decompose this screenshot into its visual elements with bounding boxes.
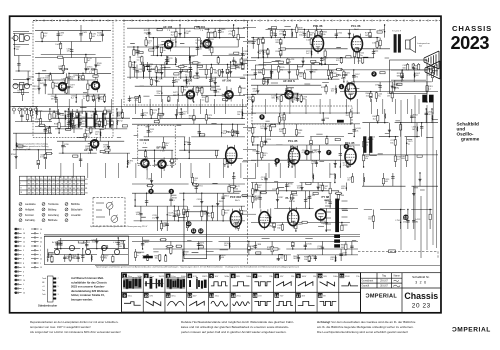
svg-text:68k: 68k (214, 73, 217, 75)
node 11 (191, 228, 196, 233)
antenna sockets (13, 32, 30, 93)
oscillogram cell 8 (274, 274, 279, 279)
svg-text:Antenne Kanalwähler Umschalt: Antenne Kanalwähler Umschaltung (17, 143, 48, 146)
svg-text:gramme: gramme (461, 137, 480, 142)
svg-text:1: 1 (40, 263, 41, 265)
node 1 (339, 84, 344, 89)
frame border (10, 16, 441, 313)
wire convergence (48, 238, 128, 262)
svg-text:10n: 10n (266, 217, 269, 219)
svg-text:3 2 6: 3 2 6 (415, 280, 427, 284)
svg-text:25u: 25u (377, 96, 380, 98)
svg-text:10: 10 (23, 280, 25, 282)
svg-text:Ständerdrucker: Ständerdrucker (38, 304, 57, 308)
svg-text:20 23: 20 23 (412, 303, 431, 310)
svg-text:1n: 1n (128, 163, 130, 165)
transformer audio output transformer (394, 34, 401, 52)
wire frame stage (132, 173, 248, 231)
svg-text:68k: 68k (415, 221, 418, 223)
oscillogram cell 13 (209, 293, 214, 298)
svg-text:1M: 1M (248, 131, 251, 133)
svg-text:1M: 1M (387, 95, 390, 97)
oscillogram strip frame (122, 273, 361, 312)
svg-text:Defekte Hochlastwiderstände si: Defekte Hochlastwiderstände sind möglich… (181, 320, 294, 324)
tube PY88 Ro9 (316, 210, 326, 223)
sound if dashed box (252, 106, 352, 124)
svg-text:25u: 25u (323, 188, 326, 190)
svg-text:50u: 50u (222, 96, 225, 98)
svg-text:3: 3 (170, 190, 172, 194)
oscillogram cell 10 (318, 274, 323, 279)
antenna note (17, 143, 49, 151)
svg-text:1n: 1n (58, 244, 60, 246)
oscillogram cell 15 (253, 293, 258, 298)
wire audio mid (251, 69, 343, 102)
black module box (337, 120, 344, 123)
svg-text:1M: 1M (51, 98, 54, 100)
svg-text:47k: 47k (355, 76, 358, 78)
svg-text:Geprüft: Geprüft (362, 285, 370, 288)
svg-text:Rö 6: Rö 6 (231, 135, 236, 137)
transistor T1 AF239 (56, 80, 67, 94)
oscillogram cell 9 (122, 293, 127, 298)
transistor T6 AF200 (222, 88, 233, 102)
svg-text:15k: 15k (313, 276, 316, 278)
svg-text:12: 12 (199, 229, 203, 233)
mid horizontal bus (11, 106, 248, 108)
svg-text:8: 8 (23, 263, 24, 265)
svg-text:Als Lötgut darf nur Lötzinn mi: Als Lötgut darf nur Lötzinn mit mindeste… (30, 330, 121, 334)
wire audio top (251, 25, 390, 64)
svg-text:6: 6 (276, 159, 278, 163)
svg-text:ƆMPERIAL: ƆMPERIAL (365, 293, 397, 299)
tube PFL200 Ro6 (226, 145, 237, 166)
svg-text:25u: 25u (160, 68, 163, 70)
svg-text:19: 19 (40, 267, 42, 269)
svg-text:16: 16 (23, 267, 25, 269)
svg-text:15k: 15k (216, 91, 219, 93)
svg-text:AF 200: AF 200 (183, 79, 193, 83)
node 8 (344, 144, 349, 149)
wire right feeders (401, 95, 437, 250)
svg-text:5: 5 (261, 115, 263, 119)
svg-text:Ton: Ton (42, 290, 45, 292)
svg-text:Farbsättg.: Farbsättg. (25, 219, 36, 222)
lower horizontal bus (44, 235, 440, 266)
top dashed bus (33, 20, 440, 22)
svg-text:Rö 3: Rö 3 (349, 146, 354, 148)
svg-text:Dr686: Dr686 (44, 128, 50, 130)
svg-text:12: 12 (23, 242, 25, 244)
tube PL36 Ro8 (259, 209, 270, 230)
svg-text:22: 22 (40, 242, 42, 244)
dashed service line (358, 251, 438, 258)
note block (71, 276, 109, 302)
svg-text:Br 300: Br 300 (52, 242, 59, 244)
svg-text:8: 8 (40, 246, 41, 248)
svg-text:Tr 5-Ü 1:9: Tr 5-Ü 1:9 (392, 30, 402, 33)
svg-text:PFL 200: PFL 200 (226, 130, 237, 134)
svg-text:AF 302 S: AF 302 S (283, 79, 295, 83)
svg-text:AF 139: AF 139 (86, 67, 96, 71)
svg-text:50Hz: 50Hz (225, 276, 230, 278)
svg-text:1: 1 (341, 85, 343, 89)
svg-text:68k: 68k (413, 117, 416, 119)
channel voltage table (20, 176, 85, 195)
svg-text:1n: 1n (158, 81, 160, 83)
svg-text:10k: 10k (237, 114, 240, 116)
svg-text:1k: 1k (310, 258, 312, 260)
svg-text:1n: 1n (265, 128, 267, 130)
svg-text:Rö 10: Rö 10 (289, 201, 296, 203)
svg-text:Rö 9: Rö 9 (324, 200, 329, 202)
svg-text:1k: 1k (47, 259, 49, 261)
svg-text:550V: 550V (345, 276, 350, 278)
resistor on service line (389, 250, 396, 253)
svg-text:25u: 25u (162, 225, 165, 227)
wire left misc (13, 109, 53, 169)
svg-text:15625: 15625 (158, 276, 164, 278)
transformer flyback (334, 199, 340, 248)
svg-text:Bildschärfe: Bildschärfe (71, 208, 83, 211)
wire audio band fill (255, 57, 338, 79)
transistor T3 AF106 (162, 38, 173, 52)
bottom note middle (181, 320, 294, 334)
svg-text:AF 200: AF 200 (222, 79, 232, 83)
tube PFL200 Ro1 (345, 81, 356, 102)
svg-text:schaltbilder für das Chassis: schaltbilder für das Chassis (71, 280, 107, 284)
black connector bar (143, 256, 153, 258)
svg-text:50Hz: 50Hz (333, 276, 338, 278)
svg-text:47k: 47k (134, 100, 137, 102)
video module box (184, 212, 207, 259)
bottom note Achtung (317, 320, 416, 334)
svg-text:1k: 1k (81, 119, 83, 121)
svg-text:Bildhöhe: Bildhöhe (71, 204, 81, 206)
svg-text:50Hz: 50Hz (246, 276, 251, 278)
oscillogram cell 16 (274, 293, 279, 298)
svg-text:47k: 47k (292, 99, 295, 101)
svg-text:14: 14 (40, 237, 42, 239)
svg-text:25u: 25u (157, 93, 160, 95)
svg-text:13: 13 (23, 246, 25, 248)
svg-text:10n: 10n (317, 248, 320, 250)
svg-text:am Ib. die Bildröhre liegende: am Ib. die Bildröhre liegende Meßgeräte … (317, 325, 414, 329)
svg-text:OC38/II: OC38/II (140, 138, 150, 142)
svg-text:2Vss: 2Vss (236, 296, 240, 298)
svg-text:Tonblende: Tonblende (48, 204, 59, 206)
svg-text:1M: 1M (323, 60, 326, 62)
svg-text:15k: 15k (427, 75, 430, 77)
svg-text:Rö 5: Rö 5 (235, 200, 240, 202)
wire if band fill (130, 57, 247, 79)
oscillogram cell 6 (231, 274, 236, 279)
section divider vertical dashed (247, 21, 249, 266)
svg-text:10k: 10k (297, 188, 300, 190)
svg-text:23: 23 (23, 237, 25, 239)
svg-text:47k: 47k (343, 165, 346, 167)
svg-text:1k: 1k (173, 213, 175, 215)
line output box (390, 60, 427, 93)
wire deflection row (251, 109, 360, 167)
transistor T10 BFY38 (155, 157, 166, 171)
svg-text:15k: 15k (299, 34, 302, 36)
oscillogram column lines (143, 273, 339, 312)
svg-text:15k: 15k (291, 276, 294, 278)
oscillogram cell 17 (296, 293, 301, 298)
svg-text:R 330: R 330 (100, 257, 106, 259)
svg-text:10k: 10k (250, 249, 253, 251)
wire tuner lower (35, 107, 111, 133)
svg-text:1n: 1n (83, 98, 85, 100)
oscillogram cell 2 (144, 274, 149, 279)
convergence board box (45, 236, 129, 265)
svg-text:Reparaturarbeiten an den Leite: Reparaturarbeiten an den Leiterplatten d… (30, 320, 118, 324)
convergence coils (54, 245, 119, 254)
wire line out top (340, 65, 438, 102)
svg-text:15k: 15k (366, 96, 369, 98)
oscillogram cell 14 (231, 293, 236, 298)
svg-text:1n: 1n (136, 255, 138, 257)
svg-text:BFY/38: BFY/38 (157, 146, 167, 150)
wire video row (132, 109, 248, 167)
svg-text:10k: 10k (160, 116, 163, 118)
node 10 (186, 221, 191, 226)
tube PCF802 Ro5 (230, 209, 241, 230)
svg-text:Die Leuchtpunktunterdrückung w: Die Leuchtpunktunterdrückung wird sonst … (317, 330, 408, 334)
svg-text:PCL 86: PCL 86 (313, 24, 323, 28)
transformer Fi2 (86, 113, 96, 128)
svg-text:perlen müssen auf jeden Fall u: perlen müssen auf jeden Fall und in glei… (181, 330, 287, 334)
svg-text:Spannungen und Ströme gemessen: Spannungen und Ströme gemessen bei Nenns… (90, 225, 148, 228)
oscillogram cell 11 (340, 274, 345, 279)
svg-text:Lautsprecher: Lautsprecher (417, 42, 430, 45)
svg-text:9: 9 (40, 233, 41, 235)
svg-text:Gezeichnet: Gezeichnet (362, 280, 374, 283)
svg-text:18: 18 (23, 233, 25, 235)
inner right border (420, 196, 422, 258)
svg-text:1n: 1n (185, 74, 187, 76)
svg-text:Takt: Takt (42, 293, 46, 296)
svg-text:Dr530: Dr530 (306, 244, 312, 246)
svg-text:22k: 22k (143, 115, 146, 117)
wire antenna input (13, 33, 32, 101)
transformer ratio detector transformer (363, 136, 372, 153)
wire lower mid (132, 237, 358, 261)
title block (361, 273, 441, 313)
node 12 (198, 228, 203, 233)
svg-text:10k: 10k (136, 214, 139, 216)
wire line out box fill (391, 63, 426, 91)
svg-text:Dr701: Dr701 (197, 185, 203, 187)
svg-text:AF 106: AF 106 (84, 148, 94, 152)
svg-text:8: 8 (345, 145, 347, 149)
transistor T9 OC38 (138, 157, 149, 171)
svg-text:14: 14 (23, 293, 25, 295)
svg-text:10k: 10k (355, 130, 358, 132)
svg-text:PL 500: PL 500 (286, 196, 295, 200)
svg-text:7: 7 (58, 278, 59, 280)
svg-text:5: 5 (23, 250, 24, 252)
node 6 (275, 158, 280, 163)
oscillogram cell 3 (166, 274, 171, 279)
table entries (28, 179, 89, 195)
svg-text:1M: 1M (186, 33, 189, 35)
svg-text:Chassis: Chassis (404, 291, 438, 301)
svg-text:50u: 50u (168, 215, 171, 217)
svg-text:1M: 1M (183, 90, 186, 92)
svg-text:22k: 22k (117, 115, 120, 117)
tube PL500 Ro10 (288, 207, 299, 228)
svg-text:5: 5 (23, 229, 24, 231)
svg-text:Bildfang: Bildfang (48, 209, 57, 211)
wire if amp row (55, 109, 130, 167)
svg-text:6: 6 (23, 254, 24, 256)
svg-text:9: 9 (150, 190, 152, 194)
svg-text:10k: 10k (304, 259, 307, 261)
oscillogram cell 1 (122, 274, 127, 279)
svg-text:Schaltbild Nr.: Schaltbild Nr. (412, 275, 430, 279)
svg-text:Kontrast: Kontrast (25, 214, 34, 217)
magnet bars (422, 95, 433, 103)
transistor T4 AF201 (200, 37, 211, 51)
svg-text:13: 13 (404, 215, 408, 219)
svg-text:8: 8 (23, 259, 24, 261)
svg-text:1M: 1M (412, 129, 415, 131)
wire tuner area (35, 25, 111, 102)
oscillogram cell 9 (296, 274, 301, 279)
svg-text:5: 5 (40, 254, 41, 256)
oscillogram cell 12 (188, 293, 193, 298)
svg-text:10k: 10k (365, 158, 368, 160)
svg-text:Auf Wunsch können Meß-: Auf Wunsch können Meß- (71, 276, 104, 280)
sync dashed box (138, 125, 175, 165)
wire if strip mid (127, 62, 246, 102)
svg-text:PY 88: PY 88 (322, 195, 330, 199)
svg-text:Dr698: Dr698 (55, 44, 61, 46)
svg-text:15625: 15625 (202, 276, 208, 278)
node 5 (259, 114, 264, 119)
subtitle Schaltbild und Oszillogramme (457, 122, 480, 142)
oscillogram cell 7 (253, 274, 258, 279)
svg-text:5Vss: 5Vss (128, 296, 132, 298)
IF dashed box (124, 21, 248, 106)
svg-text:160V: 160V (302, 276, 307, 278)
svg-text:1k: 1k (29, 79, 31, 81)
tube PCL85 Ro3 (345, 146, 356, 167)
svg-text:Rö 2: Rö 2 (354, 29, 359, 31)
svg-text:PCL 85: PCL 85 (288, 139, 298, 143)
svg-text:ƆMPERIAL: ƆMPERIAL (452, 327, 491, 334)
svg-text:Rö 7: Rö 7 (316, 29, 321, 31)
svg-text:Bildbreite: Bildbreite (48, 219, 58, 222)
svg-text:AF 201: AF 201 (196, 25, 206, 29)
svg-text:Name: Name (394, 276, 401, 278)
svg-text:22k: 22k (144, 32, 147, 34)
svg-text:2023 von unserer Kunden-: 2023 von unserer Kunden- (71, 285, 105, 289)
svg-text:1k: 1k (325, 203, 327, 205)
svg-text:kates und mit unbedingt der gl: kates und mit unbedingt der gleichen Bel… (181, 325, 289, 329)
svg-text:25u: 25u (228, 33, 231, 35)
tube PCL86 Ro7 (313, 33, 324, 54)
svg-text:22: 22 (40, 259, 42, 261)
legend table (25, 203, 83, 222)
svg-text:1Vss: 1Vss (215, 296, 219, 298)
node 9 (148, 189, 153, 194)
oscillogram cell 4 (188, 274, 193, 279)
svg-text:3: 3 (40, 250, 41, 252)
svg-text:bezogen werden.: bezogen werden. (71, 298, 93, 302)
svg-text:6: 6 (23, 271, 24, 273)
node 2 (371, 71, 376, 76)
wire line stage (251, 173, 358, 231)
svg-text:temperatur von max. 310° C aus: temperatur von max. 310° C ausgeführt we… (30, 325, 91, 329)
plug row (12, 107, 38, 115)
svg-text:25u: 25u (103, 147, 106, 149)
tuner dashed box (33, 21, 113, 138)
svg-text:5Ω: 5Ω (419, 46, 422, 48)
speaker (406, 37, 416, 53)
svg-text:Rö 1: Rö 1 (341, 78, 346, 80)
svg-text:Helligkeit: Helligkeit (25, 208, 35, 211)
deflection yoke (424, 51, 440, 79)
svg-text:10: 10 (187, 222, 191, 226)
svg-text:3Vss: 3Vss (171, 296, 175, 298)
node 3 (169, 189, 174, 194)
svg-text:2023: 2023 (451, 32, 490, 53)
svg-text:10n: 10n (248, 99, 251, 101)
svg-text:1k: 1k (289, 61, 291, 63)
svg-text:5: 5 (23, 288, 24, 290)
svg-text:Dr389: Dr389 (297, 224, 303, 226)
signatures (393, 280, 400, 287)
svg-text:1n: 1n (261, 179, 263, 181)
svg-text:47k: 47k (336, 60, 339, 62)
svg-text:4: 4 (306, 151, 308, 155)
connector strip (48, 276, 54, 302)
svg-text:15k: 15k (269, 276, 272, 278)
svg-text:30.6.67: 30.6.67 (380, 286, 388, 288)
svg-text:Lautstärke: Lautstärke (25, 203, 36, 206)
connector list (14, 228, 39, 294)
wire hv area (362, 173, 438, 229)
tube PCL85 Ro4 (289, 146, 300, 167)
svg-text:3: 3 (58, 294, 59, 296)
node 7 (326, 150, 331, 155)
wire east west (362, 109, 438, 167)
oscillogram cell 18 (318, 293, 323, 298)
svg-text:Zeilenfang: Zeilenfang (48, 215, 59, 217)
svg-text:AF 239: AF 239 (59, 67, 69, 71)
svg-text:AF 106: AF 106 (163, 25, 173, 29)
svg-text:höttel, Lindener Straße 15,: höttel, Lindener Straße 15, (71, 293, 105, 297)
node 13 (403, 215, 408, 220)
transistor T7 AF302 (282, 88, 293, 102)
svg-text:Bereich oben gezeichnet in St: Bereich oben gezeichnet in Stellung (17, 145, 49, 148)
svg-text:7: 7 (328, 151, 330, 155)
svg-text:PCL 86: PCL 86 (351, 24, 361, 28)
svg-text:10k: 10k (322, 34, 325, 36)
tube PCL86 Ro2 (352, 34, 363, 55)
transformer Fi1 (70, 113, 80, 128)
svg-text:10n: 10n (221, 32, 224, 34)
svg-text:Spannungen und Ströme gemessen: Spannungen und Ströme gemessen bei Anten… (96, 265, 300, 268)
oscillogram cell 11 (166, 293, 171, 298)
svg-text:29.6.67: 29.6.67 (380, 281, 388, 283)
svg-text:14: 14 (40, 229, 42, 231)
svg-text:11: 11 (192, 229, 196, 233)
svg-text:25u: 25u (359, 55, 362, 57)
